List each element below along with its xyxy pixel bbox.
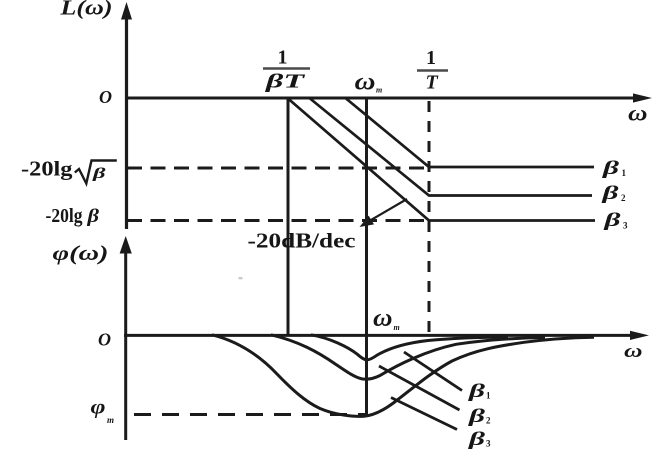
magnitude curve beta2 (diagonal + level) <box>310 99 592 196</box>
slope pointer line <box>365 199 407 224</box>
svg-text:β: β <box>91 166 106 182</box>
svg-text:1: 1 <box>486 391 491 401</box>
svg-text:m: m <box>376 86 382 95</box>
L horizontal axis arrowhead <box>633 93 652 102</box>
dashed vertical line at 1/T <box>428 101 431 335</box>
svg-text:ω: ω <box>355 70 376 96</box>
phi horizontal axis arrowhead <box>630 331 649 340</box>
svg-text:m: m <box>394 323 400 332</box>
radical sign of -20lg sqrt(beta) <box>75 161 117 184</box>
svg-text:2: 2 <box>486 416 491 426</box>
svg-text:β: β <box>467 429 485 450</box>
L(w) vertical axis <box>125 14 128 229</box>
fraction bar 1/T <box>417 69 448 71</box>
svg-text:-20lg: -20lg <box>21 156 73 180</box>
svg-text:-20lg: -20lg <box>46 205 83 227</box>
phase curve beta3 <box>212 335 594 417</box>
svg-text:β: β <box>86 206 99 227</box>
slope pointer arrowhead <box>360 216 375 227</box>
leader line beta3 (phase) <box>391 398 457 430</box>
phase curve beta2 <box>271 335 545 379</box>
svg-text:3: 3 <box>623 221 628 231</box>
svg-text:m: m <box>107 415 114 425</box>
svg-text:ω: ω <box>628 101 648 126</box>
svg-text:1: 1 <box>622 168 627 178</box>
magnitude curve beta1 (diagonal + level) <box>346 99 594 168</box>
svg-text:β: β <box>601 158 619 179</box>
svg-text:β: β <box>601 183 619 204</box>
magnitude curve beta3 (diagonal + level) <box>288 99 595 221</box>
dashed level -20lg(sqrt beta) <box>127 167 429 170</box>
svg-text:βT: βT <box>264 71 305 93</box>
svg-text:β: β <box>467 381 485 402</box>
vertical line at 1/(beta T) <box>287 98 290 336</box>
svg-text:ω: ω <box>624 341 643 362</box>
svg-text:ω: ω <box>373 305 393 332</box>
fraction bar 1/(beta T) <box>263 67 310 69</box>
leader line beta2 (phase) <box>379 366 460 410</box>
svg-text:φ: φ <box>91 397 106 419</box>
svg-text:β: β <box>603 210 621 231</box>
vertical line at omega_m <box>365 98 368 417</box>
svg-text:2: 2 <box>621 193 626 203</box>
svg-text:L(ω): L(ω) <box>59 0 112 20</box>
svg-text:φ(ω): φ(ω) <box>53 241 109 265</box>
L axis arrowhead <box>121 2 132 20</box>
phase curve beta1 <box>311 335 508 360</box>
dashed level phi_m <box>134 413 366 416</box>
faint scan speck <box>239 277 243 279</box>
phi(w) horizontal axis (omega) <box>124 334 637 337</box>
svg-text:β: β <box>467 406 485 427</box>
svg-text:O: O <box>99 87 112 107</box>
svg-text:1: 1 <box>278 47 288 69</box>
svg-text:-20dB/dec: -20dB/dec <box>248 229 356 253</box>
L(w) horizontal axis (omega) <box>125 97 640 100</box>
leader line beta1 (phase) <box>404 352 462 391</box>
svg-text:O: O <box>98 330 111 350</box>
svg-text:3: 3 <box>486 439 491 449</box>
phi axis arrowhead <box>120 236 132 254</box>
phi(w) vertical axis <box>124 249 127 440</box>
dashed level -20lg(beta) <box>127 219 429 222</box>
svg-text:1: 1 <box>426 47 436 69</box>
svg-text:T: T <box>426 72 439 94</box>
